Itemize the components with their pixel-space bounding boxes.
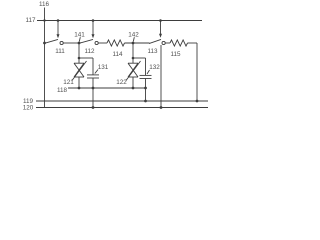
- svg-text:131: 131: [98, 64, 109, 71]
- switch S112 fixed contact circle: [95, 41, 98, 44]
- node: bus tap above switch 113: [159, 19, 162, 22]
- svg-text:114: 114: [112, 51, 123, 58]
- svg-text:116: 116: [39, 1, 50, 8]
- lead line from label 142 to node: [133, 37, 134, 41]
- node: tap to capacitor 132: [132, 57, 135, 60]
- wire: switch 112 to resistor 114: [98, 42, 107, 44]
- wire: switch 113 column down to line 120: [160, 45, 162, 108]
- svg-text:117: 117: [25, 17, 36, 24]
- wire: capacitor 131 bottom lead down to line 120: [92, 78, 94, 108]
- svg-text:113: 113: [147, 48, 158, 55]
- svg-text:141: 141: [74, 31, 85, 38]
- node: switch 113 column joins line 120: [160, 106, 163, 109]
- wire: switch 111 to node 141: [63, 42, 79, 44]
- wire: resistor 115 to right corner: [188, 42, 198, 44]
- lead line from label 141 to node: [79, 37, 80, 41]
- node: bus tap above switch 112: [92, 19, 95, 22]
- wire: node 142 down to varistor 122: [132, 43, 134, 63]
- switch S111 fixed contact circle: [60, 41, 63, 44]
- node: tap to capacitor 131: [78, 57, 81, 60]
- svg-text:120: 120: [23, 105, 34, 112]
- wire: varistor 121 down to bus 118: [78, 77, 80, 88]
- lead line from label 132 to capacitor: [147, 70, 150, 74]
- svg-text:132: 132: [149, 64, 160, 71]
- wire: drop from bus to switch 112: [92, 21, 94, 35]
- wire: switch 113 to resistor 115: [165, 42, 170, 44]
- node: capacitor column joins line 120: [92, 106, 95, 109]
- svg-text:112: 112: [84, 48, 95, 55]
- resistor R114: [107, 40, 125, 46]
- switch S113 blade: [149, 39, 161, 43]
- svg-text:118: 118: [57, 87, 68, 94]
- wire: internal bus line 118: [68, 87, 146, 89]
- resistor R115: [170, 40, 188, 46]
- switch S111 blade: [45, 39, 59, 43]
- wire: resistor 114 to switch 113: [125, 42, 150, 44]
- node: capacitor column on bus 118: [92, 87, 95, 90]
- wire: capacitor 132 bottom lead down to line 119: [145, 79, 147, 102]
- capacitor C132: [140, 75, 152, 78]
- node: capacitor column on bus 118 end: [144, 87, 147, 90]
- wire: top bus line 117: [37, 20, 202, 22]
- lead line from label 131 to capacitor: [95, 70, 98, 74]
- wire: drop from bus to switch 113: [160, 21, 162, 35]
- wire: output line 119: [36, 100, 208, 102]
- node: right vertical joins line 119: [196, 100, 199, 103]
- wire: node to capacitor 132: [133, 57, 146, 59]
- node 141 junction dot: [78, 42, 81, 45]
- switch S112 blade: [79, 39, 93, 43]
- varistor 121: [72, 61, 87, 81]
- svg-text:115: 115: [170, 51, 181, 58]
- arrowhead pointing at switch 112: [92, 34, 95, 38]
- wire: output line 120: [36, 107, 208, 109]
- wire: capacitor 132 top lead: [145, 58, 147, 75]
- wire: right vertical down to line 119: [196, 43, 198, 101]
- svg-text:111: 111: [55, 48, 65, 55]
- wire: drop from bus to switch 111: [57, 21, 59, 35]
- capacitor C131: [87, 75, 99, 78]
- svg-text:121: 121: [63, 79, 74, 86]
- svg-text:142: 142: [128, 31, 139, 38]
- wire: capacitor 131 top lead: [92, 58, 94, 75]
- wire: node to capacitor 131: [79, 57, 93, 59]
- switch S113 fixed contact circle: [162, 41, 165, 44]
- wire: node 141 down to varistor 121: [78, 43, 80, 63]
- node 142 junction dot: [132, 42, 135, 45]
- wire: varistor 122 down to bus 118: [132, 77, 134, 88]
- svg-text:122: 122: [116, 79, 127, 86]
- arrowhead pointing at switch 111: [57, 34, 60, 38]
- node: varistor 122 on bus 118: [132, 87, 135, 90]
- node: bus tap above switch 111: [57, 19, 60, 22]
- node: crossing of line 116 and bus 117: [43, 19, 45, 21]
- arrowhead pointing at switch 113: [159, 34, 162, 38]
- node: switch 111 pivot on line 116: [43, 42, 46, 45]
- node: varistor 121 on bus 118: [78, 87, 81, 90]
- node: capacitor 132 column joins line 119: [144, 100, 147, 103]
- wire: vertical line 116: [44, 8, 46, 108]
- varistor 122: [126, 61, 141, 81]
